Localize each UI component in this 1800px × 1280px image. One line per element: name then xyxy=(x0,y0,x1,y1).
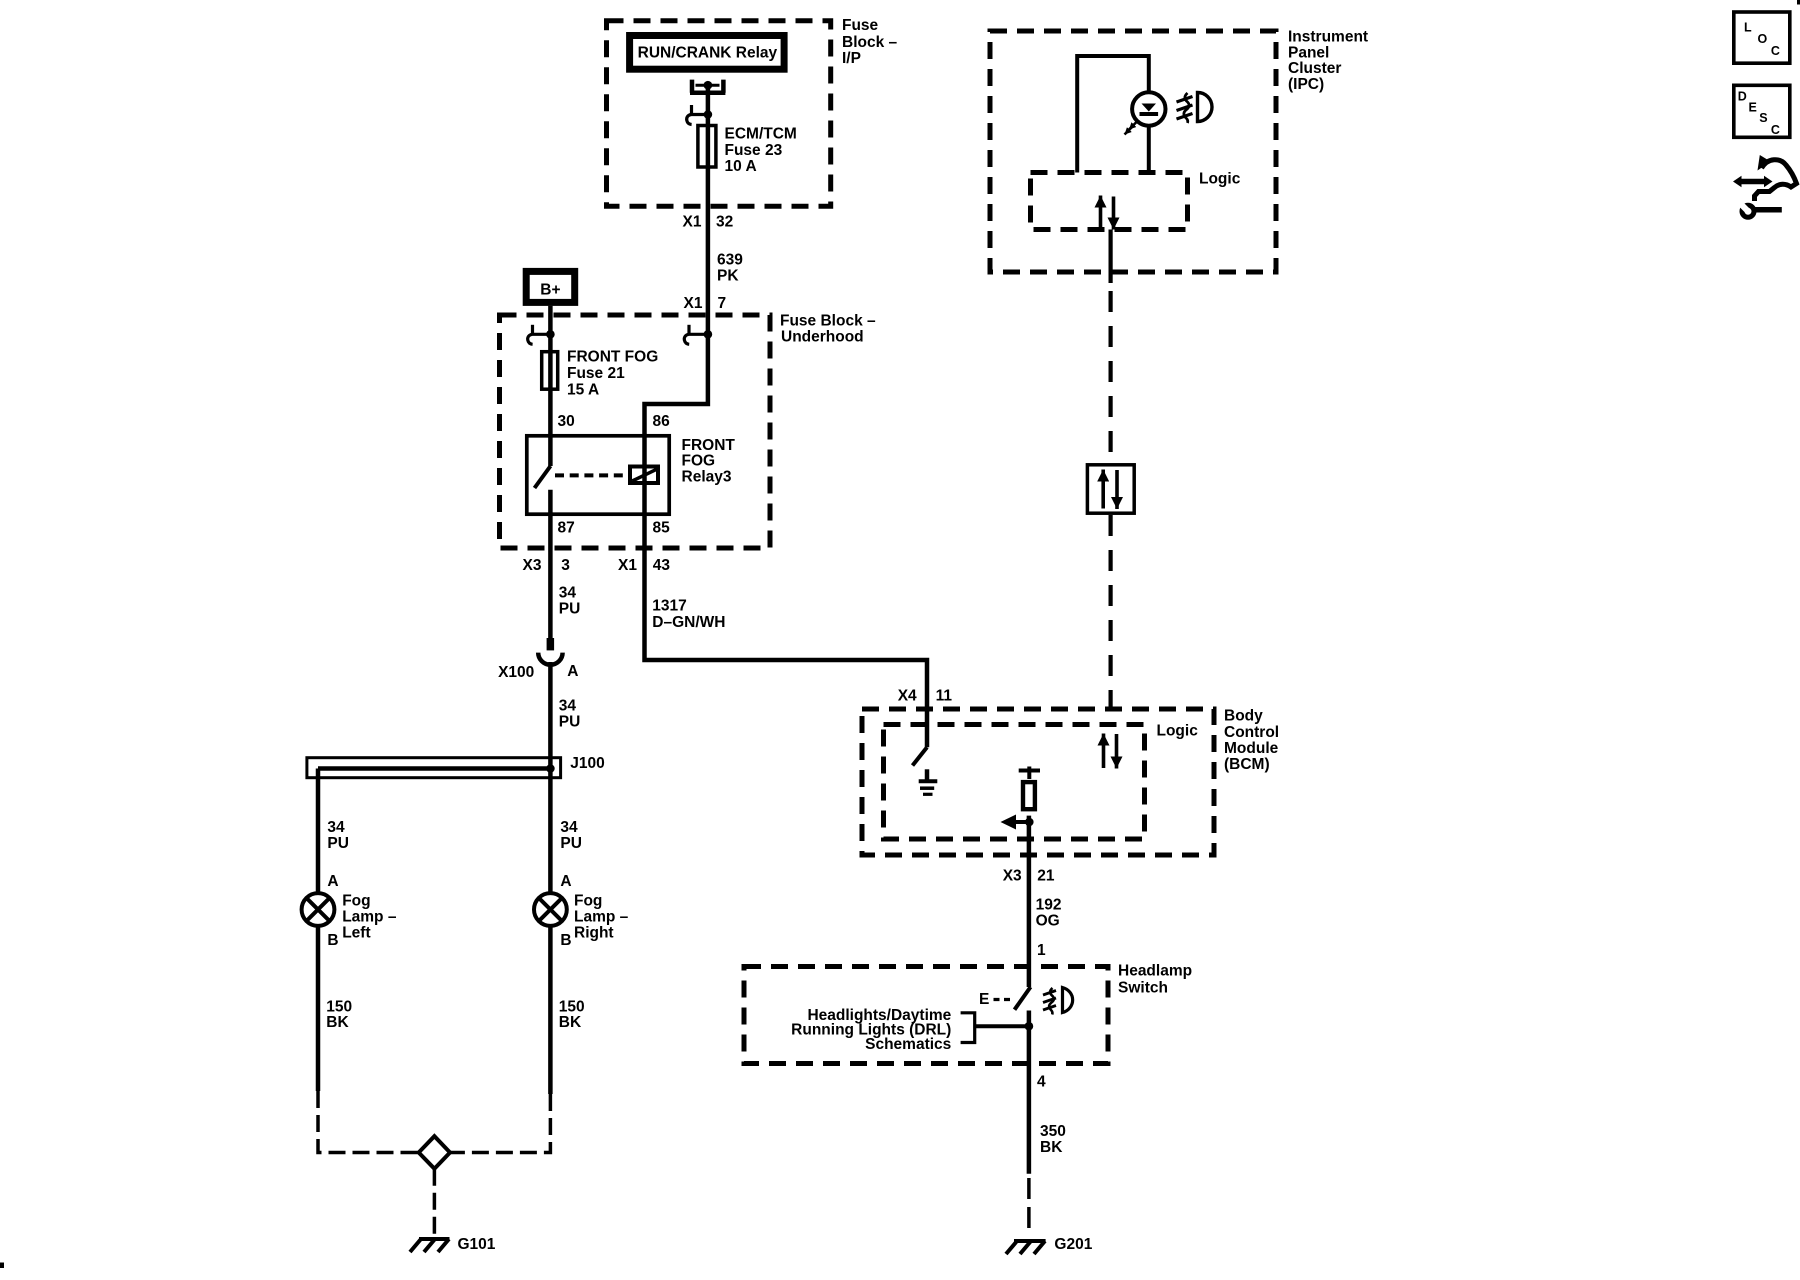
svg-text:34: 34 xyxy=(560,819,578,836)
svg-text:X1: X1 xyxy=(683,214,702,231)
svg-text:FRONT FOG: FRONT FOG xyxy=(567,349,658,366)
svg-text:S: S xyxy=(1759,111,1767,125)
svg-text:X1: X1 xyxy=(618,557,637,574)
svg-text:G201: G201 xyxy=(1054,1236,1092,1253)
svg-text:Headlamp: Headlamp xyxy=(1118,963,1192,980)
svg-text:7: 7 xyxy=(718,295,727,312)
svg-text:BK: BK xyxy=(1040,1139,1063,1156)
svg-text:Fuse: Fuse xyxy=(842,17,879,34)
svg-text:B: B xyxy=(560,932,571,949)
svg-text:Body: Body xyxy=(1224,708,1263,725)
svg-text:150: 150 xyxy=(326,998,352,1015)
svg-text:(BCM): (BCM) xyxy=(1224,756,1270,773)
svg-text:11: 11 xyxy=(936,687,953,704)
svg-text:PU: PU xyxy=(327,835,349,852)
svg-text:87: 87 xyxy=(558,519,575,536)
svg-text:Cluster: Cluster xyxy=(1288,60,1341,77)
svg-text:Right: Right xyxy=(574,924,614,941)
svg-text:Fuse 21: Fuse 21 xyxy=(567,365,625,382)
svg-text:Fuse Block –: Fuse Block – xyxy=(780,312,876,329)
svg-text:Underhood: Underhood xyxy=(781,328,864,345)
svg-text:Instrument: Instrument xyxy=(1288,29,1368,46)
svg-text:34: 34 xyxy=(559,697,577,714)
svg-text:X1: X1 xyxy=(684,295,703,312)
svg-text:A: A xyxy=(560,873,571,890)
svg-text:J100: J100 xyxy=(570,755,604,772)
svg-text:Logic: Logic xyxy=(1157,723,1199,740)
svg-text:PU: PU xyxy=(560,835,582,852)
svg-text:X4: X4 xyxy=(898,687,917,704)
svg-text:639: 639 xyxy=(717,252,743,269)
svg-text:192: 192 xyxy=(1036,897,1062,914)
svg-text:Panel: Panel xyxy=(1288,45,1329,62)
svg-text:C: C xyxy=(1771,44,1780,58)
svg-text:1: 1 xyxy=(1037,942,1046,959)
svg-text:E: E xyxy=(1749,100,1757,114)
svg-text:PK: PK xyxy=(717,268,739,285)
svg-text:D: D xyxy=(1738,90,1747,104)
svg-text:Lamp –: Lamp – xyxy=(342,908,397,925)
svg-text:I/P: I/P xyxy=(842,50,861,67)
svg-text:A: A xyxy=(327,873,338,890)
svg-text:FOG: FOG xyxy=(682,453,716,470)
svg-text:L: L xyxy=(1744,20,1752,34)
svg-text:150: 150 xyxy=(559,998,585,1015)
svg-text:OG: OG xyxy=(1036,913,1060,930)
svg-text:3: 3 xyxy=(561,557,570,574)
svg-text:PU: PU xyxy=(559,713,581,730)
svg-text:32: 32 xyxy=(716,214,733,231)
svg-text:30: 30 xyxy=(558,413,575,430)
svg-text:Relay3: Relay3 xyxy=(682,469,732,486)
svg-text:15 A: 15 A xyxy=(567,381,599,398)
svg-text:B: B xyxy=(327,932,338,949)
svg-text:Block –: Block – xyxy=(842,34,898,51)
svg-text:BK: BK xyxy=(326,1014,349,1031)
svg-text:Switch: Switch xyxy=(1118,980,1168,997)
svg-text:10 A: 10 A xyxy=(725,158,757,175)
svg-text:X3: X3 xyxy=(523,557,542,574)
svg-text:X3: X3 xyxy=(1003,868,1022,885)
svg-text:PU: PU xyxy=(559,600,581,617)
svg-text:Fog: Fog xyxy=(342,893,370,910)
svg-text:(IPC): (IPC) xyxy=(1288,76,1324,93)
svg-text:34: 34 xyxy=(559,584,577,601)
svg-text:Schematics: Schematics xyxy=(865,1036,951,1053)
svg-text:43: 43 xyxy=(653,557,671,574)
svg-text:Module: Module xyxy=(1224,740,1279,757)
svg-text:C: C xyxy=(1771,123,1780,137)
svg-text:Left: Left xyxy=(342,924,370,941)
svg-text:1317: 1317 xyxy=(652,598,686,615)
svg-text:E: E xyxy=(979,991,989,1008)
svg-text:RUN/CRANK Relay: RUN/CRANK Relay xyxy=(638,44,778,61)
svg-text:A: A xyxy=(567,663,578,680)
svg-text:G101: G101 xyxy=(458,1236,496,1253)
svg-text:X100: X100 xyxy=(498,664,534,681)
svg-text:O: O xyxy=(1758,32,1768,46)
svg-text:Logic: Logic xyxy=(1199,171,1241,188)
svg-text:Fuse 23: Fuse 23 xyxy=(725,142,783,159)
svg-text:Control: Control xyxy=(1224,724,1279,741)
svg-text:86: 86 xyxy=(653,413,671,430)
svg-text:Fog: Fog xyxy=(574,893,602,910)
svg-text:4: 4 xyxy=(1037,1073,1046,1090)
svg-text:350: 350 xyxy=(1040,1123,1066,1140)
svg-text:85: 85 xyxy=(653,519,671,536)
svg-text:D–GN/WH: D–GN/WH xyxy=(652,614,725,631)
svg-text:ECM/TCM: ECM/TCM xyxy=(725,125,797,142)
svg-text:B+: B+ xyxy=(540,282,560,299)
svg-text:BK: BK xyxy=(559,1014,582,1031)
svg-text:Lamp –: Lamp – xyxy=(574,908,629,925)
svg-text:21: 21 xyxy=(1037,868,1055,885)
svg-text:34: 34 xyxy=(327,819,345,836)
